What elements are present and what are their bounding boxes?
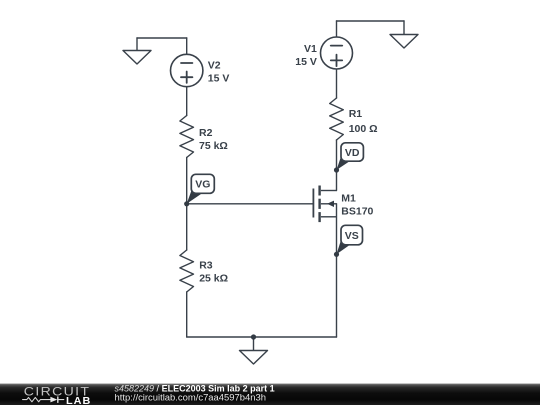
svg-text:LAB: LAB <box>66 396 91 405</box>
svg-text:http://circuitlab.com/c7aa4597: http://circuitlab.com/c7aa4597b4n3h <box>115 392 267 402</box>
svg-text:V1: V1 <box>304 43 317 55</box>
svg-text:V2: V2 <box>208 60 221 72</box>
svg-text:VS: VS <box>345 230 359 242</box>
svg-text:VG: VG <box>195 179 210 191</box>
svg-text:15 V: 15 V <box>208 72 230 84</box>
svg-text:25 kΩ: 25 kΩ <box>199 273 228 285</box>
svg-text:M1: M1 <box>341 193 356 205</box>
svg-text:R2: R2 <box>199 127 213 139</box>
svg-text:15 V: 15 V <box>295 56 317 68</box>
svg-text:R3: R3 <box>199 260 213 272</box>
svg-text:100 Ω: 100 Ω <box>349 123 378 135</box>
svg-text:VD: VD <box>345 147 360 159</box>
svg-text:BS170: BS170 <box>341 206 373 218</box>
svg-text:R1: R1 <box>349 108 363 120</box>
svg-text:75 kΩ: 75 kΩ <box>199 140 228 152</box>
